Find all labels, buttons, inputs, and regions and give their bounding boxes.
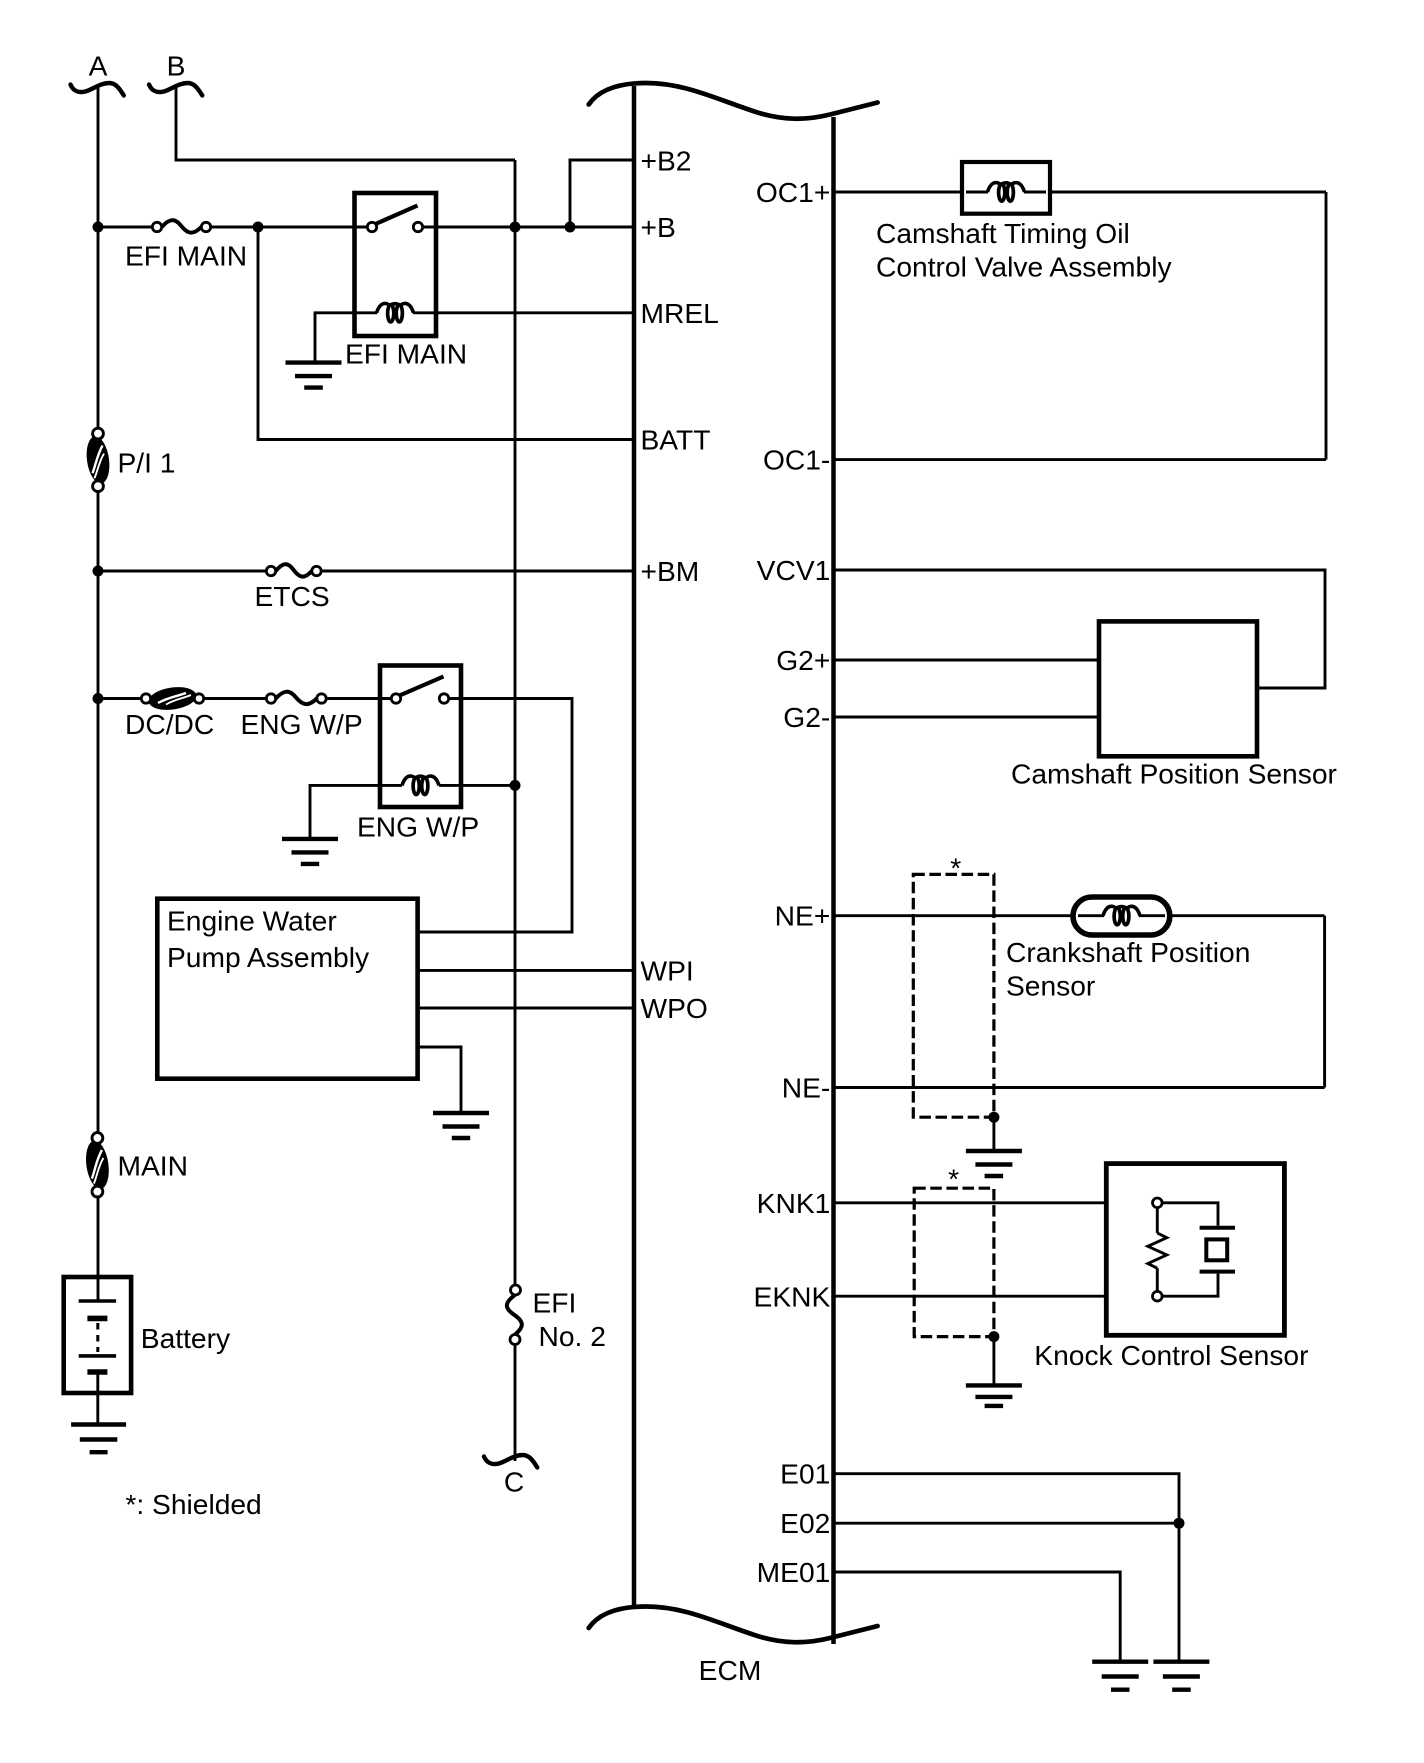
wire ME01 to ground <box>832 1572 1120 1662</box>
wire ENG W/P fuse to relay <box>321 697 392 700</box>
wire MREL from relay coil to ECM <box>436 311 635 314</box>
relay EFI MAIN box <box>355 193 437 336</box>
svg-text:ENG W/P: ENG W/P <box>357 810 479 842</box>
wire OC1 loop right side <box>1325 192 1328 460</box>
fusible link DC/DC <box>141 684 203 712</box>
wire relay coil left to ground stem <box>315 313 377 363</box>
relay EFI MAIN switch blade <box>376 206 418 225</box>
wire KNK1 <box>832 1201 1157 1204</box>
svg-text:E01: E01 <box>780 1458 830 1490</box>
svg-text:VCV1: VCV1 <box>757 554 831 586</box>
svg-text:G2-: G2- <box>783 701 830 733</box>
wire NE+ <box>832 914 1103 917</box>
wire battery negative to ground <box>96 1372 99 1425</box>
svg-text:Camshaft Timing Oil: Camshaft Timing Oil <box>876 217 1130 249</box>
svg-text:*: Shielded: *: Shielded <box>125 1488 261 1520</box>
wire ENG W/P coil right to EFI No.2 branch <box>439 784 515 787</box>
svg-text:ECM: ECM <box>699 1654 762 1686</box>
connector A symbol <box>71 83 124 96</box>
svg-text:+B: +B <box>641 211 676 243</box>
node junction +B/BATT branch <box>253 222 264 233</box>
svg-text:G2+: G2+ <box>776 644 830 676</box>
shield (dashed) around knock wires <box>914 1188 994 1336</box>
wire vertical branch x515 from B wire down to EFI No.2 fuse <box>514 160 517 1290</box>
node junction A/fused row <box>93 693 104 704</box>
svg-text:No. 2: No. 2 <box>539 1320 606 1352</box>
fuse EFI MAIN <box>152 220 210 232</box>
wire +BM rail <box>98 570 272 573</box>
wire pump assembly to ground <box>418 1047 461 1113</box>
svg-text:ETCS: ETCS <box>255 580 330 612</box>
coil (crankshaft sensor coil) <box>1103 906 1140 924</box>
svg-text:EFI MAIN: EFI MAIN <box>345 337 467 369</box>
svg-text:EKNK: EKNK <box>754 1280 831 1312</box>
wire +B rail right segment to ECM <box>422 226 635 229</box>
ground (engine water pump) <box>433 1113 489 1138</box>
wire NE+ right of pickup coil <box>1140 914 1325 917</box>
knock sensor terminals <box>1153 1198 1163 1301</box>
wire from connector A down to battery <box>97 87 100 1301</box>
relay ENG W/P switch contacts <box>391 694 448 703</box>
svg-text:OC1-: OC1- <box>763 444 830 476</box>
wire VCV1 <box>832 570 1325 688</box>
svg-text:Sensor: Sensor <box>1006 969 1095 1001</box>
capacitor / piezo element (knock sensor internal) <box>1162 1203 1235 1296</box>
svg-text:Battery: Battery <box>141 1322 231 1354</box>
resistor (knock sensor internal) <box>1148 1208 1167 1292</box>
node junction A/+BM <box>93 566 104 577</box>
svg-text:NE+: NE+ <box>775 900 831 932</box>
battery plates <box>79 1301 116 1372</box>
relay EFI MAIN switch contacts <box>367 222 422 231</box>
node shield drain junction <box>988 1112 999 1123</box>
wire EKNK <box>832 1295 1157 1298</box>
wire E01 to ground <box>832 1474 1179 1662</box>
shield (dashed) around NE wires <box>913 874 994 1117</box>
wire WPO <box>418 1007 635 1010</box>
wire BATT branch <box>258 227 635 440</box>
node junction A/+B rail <box>93 222 104 233</box>
svg-text:BATT: BATT <box>641 424 711 456</box>
wire knock shield drain to ground <box>992 1337 995 1386</box>
wire from connector B down and right to +B2 branch <box>176 87 515 160</box>
wire OC1- <box>832 458 1326 461</box>
ground (battery) <box>71 1425 126 1453</box>
ground (ENG W/P relay coil) <box>282 839 338 864</box>
wire G2+ <box>832 659 1099 662</box>
svg-text:MREL: MREL <box>641 297 719 329</box>
node knock shield drain junction <box>988 1331 999 1342</box>
crankshaft position sensor pickup coil (stadium) <box>1073 897 1170 935</box>
ECM right edge <box>831 117 836 1644</box>
wire +B2 pin stub <box>570 160 635 227</box>
node junction +B/+B2 stub <box>565 222 576 233</box>
svg-text:Crankshaft Position: Crankshaft Position <box>1006 936 1250 968</box>
svg-text:Camshaft Position Sensor: Camshaft Position Sensor <box>1011 758 1337 790</box>
svg-text:+BM: +BM <box>641 555 700 587</box>
wire ENG W/P coil left to ground stem <box>310 785 402 839</box>
svg-text:MAIN: MAIN <box>118 1150 188 1182</box>
ground (knock shield) <box>966 1385 1022 1406</box>
svg-text:B: B <box>167 50 186 82</box>
svg-text:ME01: ME01 <box>757 1556 831 1588</box>
svg-text:Control Valve Assembly: Control Valve Assembly <box>876 250 1172 282</box>
svg-text:KNK1: KNK1 <box>757 1187 831 1219</box>
node junction +B/B-wire <box>510 222 521 233</box>
svg-text:Pump Assembly: Pump Assembly <box>167 941 370 973</box>
svg-text:Knock Control Sensor: Knock Control Sensor <box>1034 1339 1308 1371</box>
svg-text:Engine Water: Engine Water <box>167 905 337 937</box>
svg-text:*: * <box>950 852 961 884</box>
wire OC1+ right of valve coil <box>1025 191 1327 194</box>
ground (EFI MAIN relay coil) <box>286 363 342 388</box>
node junction ENG W-P coil / EFI No.2 branch <box>510 780 521 791</box>
ground (NE shield) <box>966 1151 1022 1176</box>
svg-text:P/I 1: P/I 1 <box>118 446 176 478</box>
wire relay coil segment right inside box <box>413 311 436 314</box>
wire fused row to ENG W/P relay <box>98 697 147 700</box>
wire +B rail between fuse and relay <box>205 226 368 229</box>
ECM left edge <box>632 86 637 1608</box>
coil (relay EFI MAIN coil) <box>377 303 414 321</box>
coil (oil control valve solenoid) <box>988 183 1025 201</box>
camshaft timing oil control valve box <box>962 162 1050 214</box>
camshaft position sensor box <box>1099 621 1257 756</box>
svg-text:E02: E02 <box>780 1507 830 1539</box>
node E02/E01 junction <box>1174 1518 1185 1529</box>
relay ENG W/P box <box>380 666 461 808</box>
svg-text:EFI: EFI <box>533 1287 577 1319</box>
svg-text:NE-: NE- <box>782 1072 831 1104</box>
coil (relay ENG W/P coil) <box>402 776 439 794</box>
svg-text:+B2: +B2 <box>641 144 692 176</box>
svg-text:WPI: WPI <box>641 954 694 986</box>
wire +B rail left segment <box>98 226 158 229</box>
wire NE loop right side <box>1323 916 1326 1088</box>
wire shield drain to ground <box>992 1117 995 1151</box>
wire WPI <box>418 969 635 972</box>
wire +BM right of ETCS fuse <box>316 570 636 573</box>
connector C symbol <box>484 1455 537 1468</box>
fusible link P/I 1 <box>84 428 112 491</box>
svg-text:OC1+: OC1+ <box>756 176 830 208</box>
fuse ETCS <box>266 564 321 576</box>
knock control sensor box <box>1106 1164 1284 1336</box>
wire G2- <box>832 716 1099 719</box>
svg-text:*: * <box>948 1163 959 1195</box>
battery box <box>64 1277 131 1393</box>
fuse EFI No. 2 <box>507 1285 522 1345</box>
svg-text:A: A <box>89 50 108 82</box>
fusible link MAIN <box>83 1133 112 1197</box>
wire EFI No.2 fuse to connector C <box>514 1340 517 1462</box>
svg-text:ENG W/P: ENG W/P <box>241 708 363 740</box>
Engine Water Pump Assembly box <box>157 899 417 1079</box>
wire OC1+ <box>832 191 988 194</box>
svg-text:WPO: WPO <box>641 992 708 1024</box>
connector B symbol <box>149 83 202 96</box>
svg-text:DC/DC: DC/DC <box>125 708 214 740</box>
svg-text:C: C <box>504 1466 524 1498</box>
fuse ENG W/P <box>266 692 326 704</box>
wire ENG W/P relay switch output <box>418 699 572 933</box>
svg-text:EFI MAIN: EFI MAIN <box>125 239 247 271</box>
relay ENG W/P switch blade <box>400 677 444 696</box>
wire NE- <box>832 1086 1325 1089</box>
ECM torn bottom edge <box>589 1607 878 1643</box>
ground (E01/E02) <box>1153 1662 1209 1690</box>
ECM torn top edge <box>589 83 878 119</box>
wire between DC/DC and ENG W/P fuse <box>198 697 272 700</box>
ground (ME01) <box>1092 1662 1148 1690</box>
wire E02 <box>832 1522 1179 1525</box>
